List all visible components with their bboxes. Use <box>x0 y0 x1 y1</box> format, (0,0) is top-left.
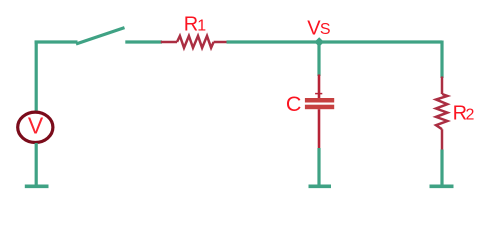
node Vs (junction diamond) <box>314 37 324 47</box>
wire: from voltage source bottom to ground <box>35 143 38 186</box>
svg-text:C: C <box>286 92 302 116</box>
capacitor C (polarized: plus tick, lead, two plates, lead) <box>305 75 334 149</box>
wire: top horizontal segment from R1 through node Vs to top-right corner <box>227 40 443 43</box>
svg-text:1: 1 <box>197 17 206 34</box>
switch S1 (open blade) <box>76 28 125 44</box>
ground (source branch) <box>25 185 49 189</box>
ground (capacitor branch) <box>309 185 332 189</box>
voltage source V (circle) <box>18 112 53 142</box>
svg-text:2: 2 <box>466 106 475 123</box>
svg-text:V: V <box>28 113 44 139</box>
wire: capacitor branch vertical (green lower part) to ground <box>317 148 320 186</box>
resistor R1 (horizontal zigzag with leads) <box>161 36 227 48</box>
wire: capacitor branch vertical (green upper part) <box>317 42 320 76</box>
wire: top horizontal segment from corner to switch left contact <box>35 40 78 43</box>
wire: left vertical from top-left corner down to voltage source <box>35 41 38 113</box>
ground (R2 branch) <box>430 185 454 189</box>
svg-text:S: S <box>320 21 331 38</box>
wire: right vertical from top-right corner down to R2 <box>440 41 443 79</box>
resistor R2 (vertical zigzag with leads) <box>436 77 447 151</box>
wire: right vertical (green lower part) to ground <box>440 150 443 187</box>
svg-text:R: R <box>184 13 198 35</box>
wire: top horizontal segment from switch right contact to R1 <box>125 40 162 43</box>
